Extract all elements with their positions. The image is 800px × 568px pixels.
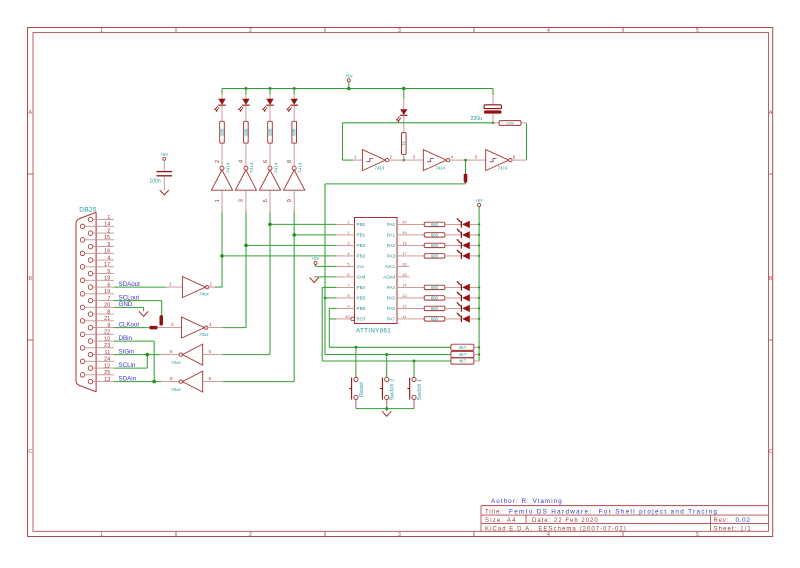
svg-text:3: 3 [412,155,415,160]
svg-text:12: 12 [402,303,406,308]
svg-text:13: 13 [402,293,406,298]
svg-text:7: 7 [107,296,110,302]
svg-text:4: 4 [450,155,453,160]
svg-text:C: C [28,449,32,455]
svg-text:18: 18 [402,240,406,245]
svg-text:4: 4 [547,532,550,538]
svg-text:6: 6 [170,349,173,354]
svg-text:5: 5 [263,199,269,202]
svg-text:1: 1 [100,532,103,538]
svg-text:8: 8 [170,376,173,381]
svg-text:PB4: PB4 [357,285,366,290]
svg-text:Vcc: Vcc [357,264,365,269]
svg-text:680: 680 [431,317,439,322]
svg-text:15: 15 [402,272,406,277]
svg-text:0.02: 0.02 [736,517,751,524]
svg-text:4: 4 [547,28,550,34]
svg-text:680: 680 [431,222,439,227]
svg-text:19: 19 [402,230,406,235]
svg-text:680: 680 [267,128,272,136]
svg-text:2: 2 [390,155,393,160]
svg-text:1: 1 [169,282,172,287]
svg-text:7414: 7414 [435,166,445,171]
svg-text:PA6: PA6 [387,306,396,311]
svg-text:680: 680 [431,243,439,248]
svg-text:11: 11 [402,314,406,319]
svg-text:B: B [769,276,773,282]
svg-text:A: A [28,110,32,116]
svg-text:680: 680 [431,233,439,238]
svg-text:21: 21 [104,316,110,322]
svg-text:6: 6 [347,272,349,277]
svg-text:22: 22 [104,330,110,336]
svg-text:B: B [28,276,32,282]
svg-text:17: 17 [402,251,406,256]
svg-text:RST: RST [357,317,366,322]
svg-text:4K7: 4K7 [459,352,467,357]
svg-text:Sheet: 1/1: Sheet: 1/1 [714,526,752,532]
svg-text:Femto DS Hardware: For Shell: Femto DS Hardware: For Shell project and… [509,509,718,516]
svg-text:5: 5 [696,532,699,538]
svg-text:7414: 7414 [498,166,508,171]
svg-text:1: 1 [347,219,349,224]
svg-text:2: 2 [107,228,110,234]
svg-text:Title:: Title: [485,510,503,516]
svg-text:9: 9 [287,199,293,202]
svg-text:AVcc: AVcc [385,264,396,269]
svg-text:4: 4 [209,322,212,327]
svg-text:Gnd: Gnd [357,275,366,280]
svg-text:7: 7 [347,282,349,287]
svg-text:23: 23 [104,343,110,349]
svg-text:11: 11 [105,350,111,356]
svg-text:PB2: PB2 [357,243,366,248]
svg-text:2: 2 [347,230,349,235]
svg-text:18: 18 [104,276,110,282]
svg-text:1: 1 [100,28,103,34]
svg-text:9: 9 [209,376,212,381]
svg-text:17: 17 [104,262,110,268]
svg-text:8: 8 [287,160,293,163]
svg-text:ATTINY861: ATTINY861 [356,328,391,335]
svg-text:680: 680 [243,128,248,136]
svg-text:680: 680 [431,306,439,311]
svg-text:Switch 2: Switch 2 [390,379,396,401]
svg-text:9: 9 [347,303,349,308]
svg-text:2: 2 [249,532,252,538]
svg-text:6: 6 [107,282,110,288]
svg-text:680: 680 [431,285,439,290]
svg-text:8: 8 [107,309,110,315]
svg-text:3: 3 [171,322,174,327]
svg-text:5: 5 [475,155,478,160]
svg-text:680: 680 [292,128,297,136]
svg-text:7414: 7414 [298,162,304,173]
svg-text:PA5: PA5 [387,296,396,301]
svg-text:4: 4 [107,255,110,261]
svg-text:PB3: PB3 [357,254,366,259]
svg-text:PB5: PB5 [357,296,366,301]
svg-text:5: 5 [209,349,212,354]
svg-text:74xx: 74xx [199,332,209,337]
svg-text:1: 1 [215,199,221,202]
svg-text:74xx: 74xx [199,291,209,296]
svg-text:PA3: PA3 [387,254,396,259]
svg-text:680: 680 [431,296,439,301]
svg-text:680: 680 [219,128,224,136]
svg-text:9: 9 [107,323,110,329]
svg-text:13: 13 [104,377,110,383]
svg-text:KiCad E.D.A. EESchema (2007-0: KiCad E.D.A. EESchema (2007-07-02) [485,526,627,532]
svg-text:PB0: PB0 [357,222,366,227]
svg-text:3: 3 [347,240,349,245]
svg-text:3: 3 [398,28,401,34]
svg-text:PA4: PA4 [387,285,396,290]
svg-text:Author: R. Vlaming: Author: R. Vlaming [491,498,563,505]
svg-text:4K7: 4K7 [459,345,467,350]
svg-text:14: 14 [104,222,110,228]
svg-text:+5V: +5V [475,198,483,203]
svg-text:8: 8 [347,293,349,298]
svg-text:100n: 100n [150,179,161,185]
svg-text:5: 5 [107,269,110,275]
svg-text:5: 5 [696,28,699,34]
svg-text:AGnd: AGnd [383,275,395,280]
svg-text:19: 19 [104,289,110,295]
svg-text:1: 1 [107,215,110,221]
svg-text:3: 3 [398,532,401,538]
svg-text:+5V: +5V [312,256,320,261]
svg-text:5: 5 [347,261,349,266]
svg-text:PB1: PB1 [357,233,366,238]
svg-text:74xx: 74xx [171,387,181,392]
svg-text:Reset: Reset [359,382,365,397]
svg-text:4K7: 4K7 [459,359,467,364]
svg-text:16: 16 [104,249,110,255]
svg-text:1: 1 [354,155,357,160]
svg-text:220u: 220u [471,116,483,122]
svg-text:7414: 7414 [375,166,385,171]
svg-text:+5V: +5V [345,73,353,78]
svg-text:2: 2 [215,160,221,163]
svg-text:7414: 7414 [249,162,255,173]
svg-text:25: 25 [104,370,110,376]
svg-text:C: C [769,449,773,455]
svg-text:16: 16 [402,261,406,266]
svg-text:7414: 7414 [225,162,231,173]
svg-text:2: 2 [249,28,252,34]
svg-text:+5V: +5V [160,152,168,157]
svg-text:Rev:: Rev: [714,518,730,524]
svg-text:Size: A4: Size: A4 [485,518,517,524]
svg-text:100k: 100k [506,121,514,125]
svg-text:PB6: PB6 [357,306,366,311]
svg-text:24: 24 [104,357,110,363]
svg-text:680: 680 [431,254,439,259]
svg-text:PA0: PA0 [387,222,396,227]
svg-text:20: 20 [104,303,110,309]
svg-text:7414: 7414 [273,162,279,173]
svg-text:3: 3 [107,242,110,248]
svg-text:PA2: PA2 [387,243,396,248]
svg-text:Switch 1: Switch 1 [417,379,423,401]
svg-text:6: 6 [513,155,516,160]
svg-text:15: 15 [104,235,110,241]
svg-text:A: A [769,110,773,116]
svg-text:Date: 22 Feb 2020: Date: 22 Feb 2020 [532,518,599,524]
svg-text:6: 6 [263,160,269,163]
svg-text:12: 12 [104,363,110,369]
svg-text:3: 3 [239,199,245,202]
svg-text:2: 2 [210,282,213,287]
svg-text:74xx: 74xx [171,360,181,365]
svg-text:PA7: PA7 [387,317,396,322]
svg-text:PA1: PA1 [387,233,396,238]
svg-text:10: 10 [104,336,110,342]
